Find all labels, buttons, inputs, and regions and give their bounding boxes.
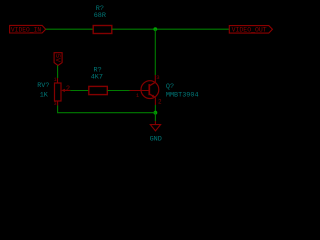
svg-text:GND: GND xyxy=(150,135,162,143)
wire R7 to VIDEO_OUT xyxy=(112,28,230,30)
wire VIDEO_IN to R7 xyxy=(46,28,93,30)
svg-text:1: 1 xyxy=(136,92,140,99)
wire pot bottom to ground junction xyxy=(58,106,156,113)
svg-text:4K7: 4K7 xyxy=(91,74,103,82)
svg-text:3: 3 xyxy=(54,101,57,107)
svg-text:2: 2 xyxy=(66,85,70,93)
transistor Q1 body circle xyxy=(141,81,159,99)
power label 5V xyxy=(53,53,62,66)
svg-text:MMBT3904: MMBT3904 xyxy=(166,91,199,99)
potentiometer RV1 top pin xyxy=(57,78,59,83)
wire emitter to ground junction xyxy=(154,105,156,113)
svg-text:1: 1 xyxy=(54,77,57,83)
svg-text:VIDEO_IN: VIDEO_IN xyxy=(11,27,41,34)
svg-text:5V: 5V xyxy=(53,54,61,63)
svg-text:3: 3 xyxy=(156,74,159,81)
svg-text:1K: 1K xyxy=(40,91,49,99)
resistor R7 body xyxy=(93,26,112,34)
potentiometer RV1 body xyxy=(55,83,62,101)
wire 4K7 to base xyxy=(107,90,129,92)
svg-text:RV?: RV? xyxy=(37,82,49,90)
junction at emitter node xyxy=(154,111,158,115)
wire wiper to R 4K7 xyxy=(70,90,89,92)
transistor Q1 collector pin xyxy=(154,75,156,82)
wire junction to collector xyxy=(154,29,156,75)
svg-text:Q?: Q? xyxy=(166,83,174,91)
resistor 4K7 body xyxy=(89,86,108,94)
svg-text:VIDEO_OUT: VIDEO_OUT xyxy=(232,27,267,34)
transistor Q1 base pin xyxy=(130,90,150,92)
transistor Q1 emitter pin xyxy=(154,97,156,105)
global label VIDEO_IN xyxy=(10,25,46,33)
svg-text:2: 2 xyxy=(158,99,162,106)
wire 5V to RV1 xyxy=(57,65,59,78)
wire junction to ground xyxy=(154,113,156,121)
potentiometer RV1 wiper arrow xyxy=(61,89,70,92)
transistor Q1 collector stroke xyxy=(149,82,155,86)
junction at collector node xyxy=(153,27,157,31)
ground symbol xyxy=(150,121,160,131)
transistor Q1 emitter stroke with arrow xyxy=(149,94,155,98)
global label VIDEO_OUT xyxy=(229,26,272,34)
svg-text:68R: 68R xyxy=(94,12,106,20)
transistor Q1 base bar xyxy=(148,84,150,95)
potentiometer RV1 bottom pin xyxy=(57,101,59,106)
